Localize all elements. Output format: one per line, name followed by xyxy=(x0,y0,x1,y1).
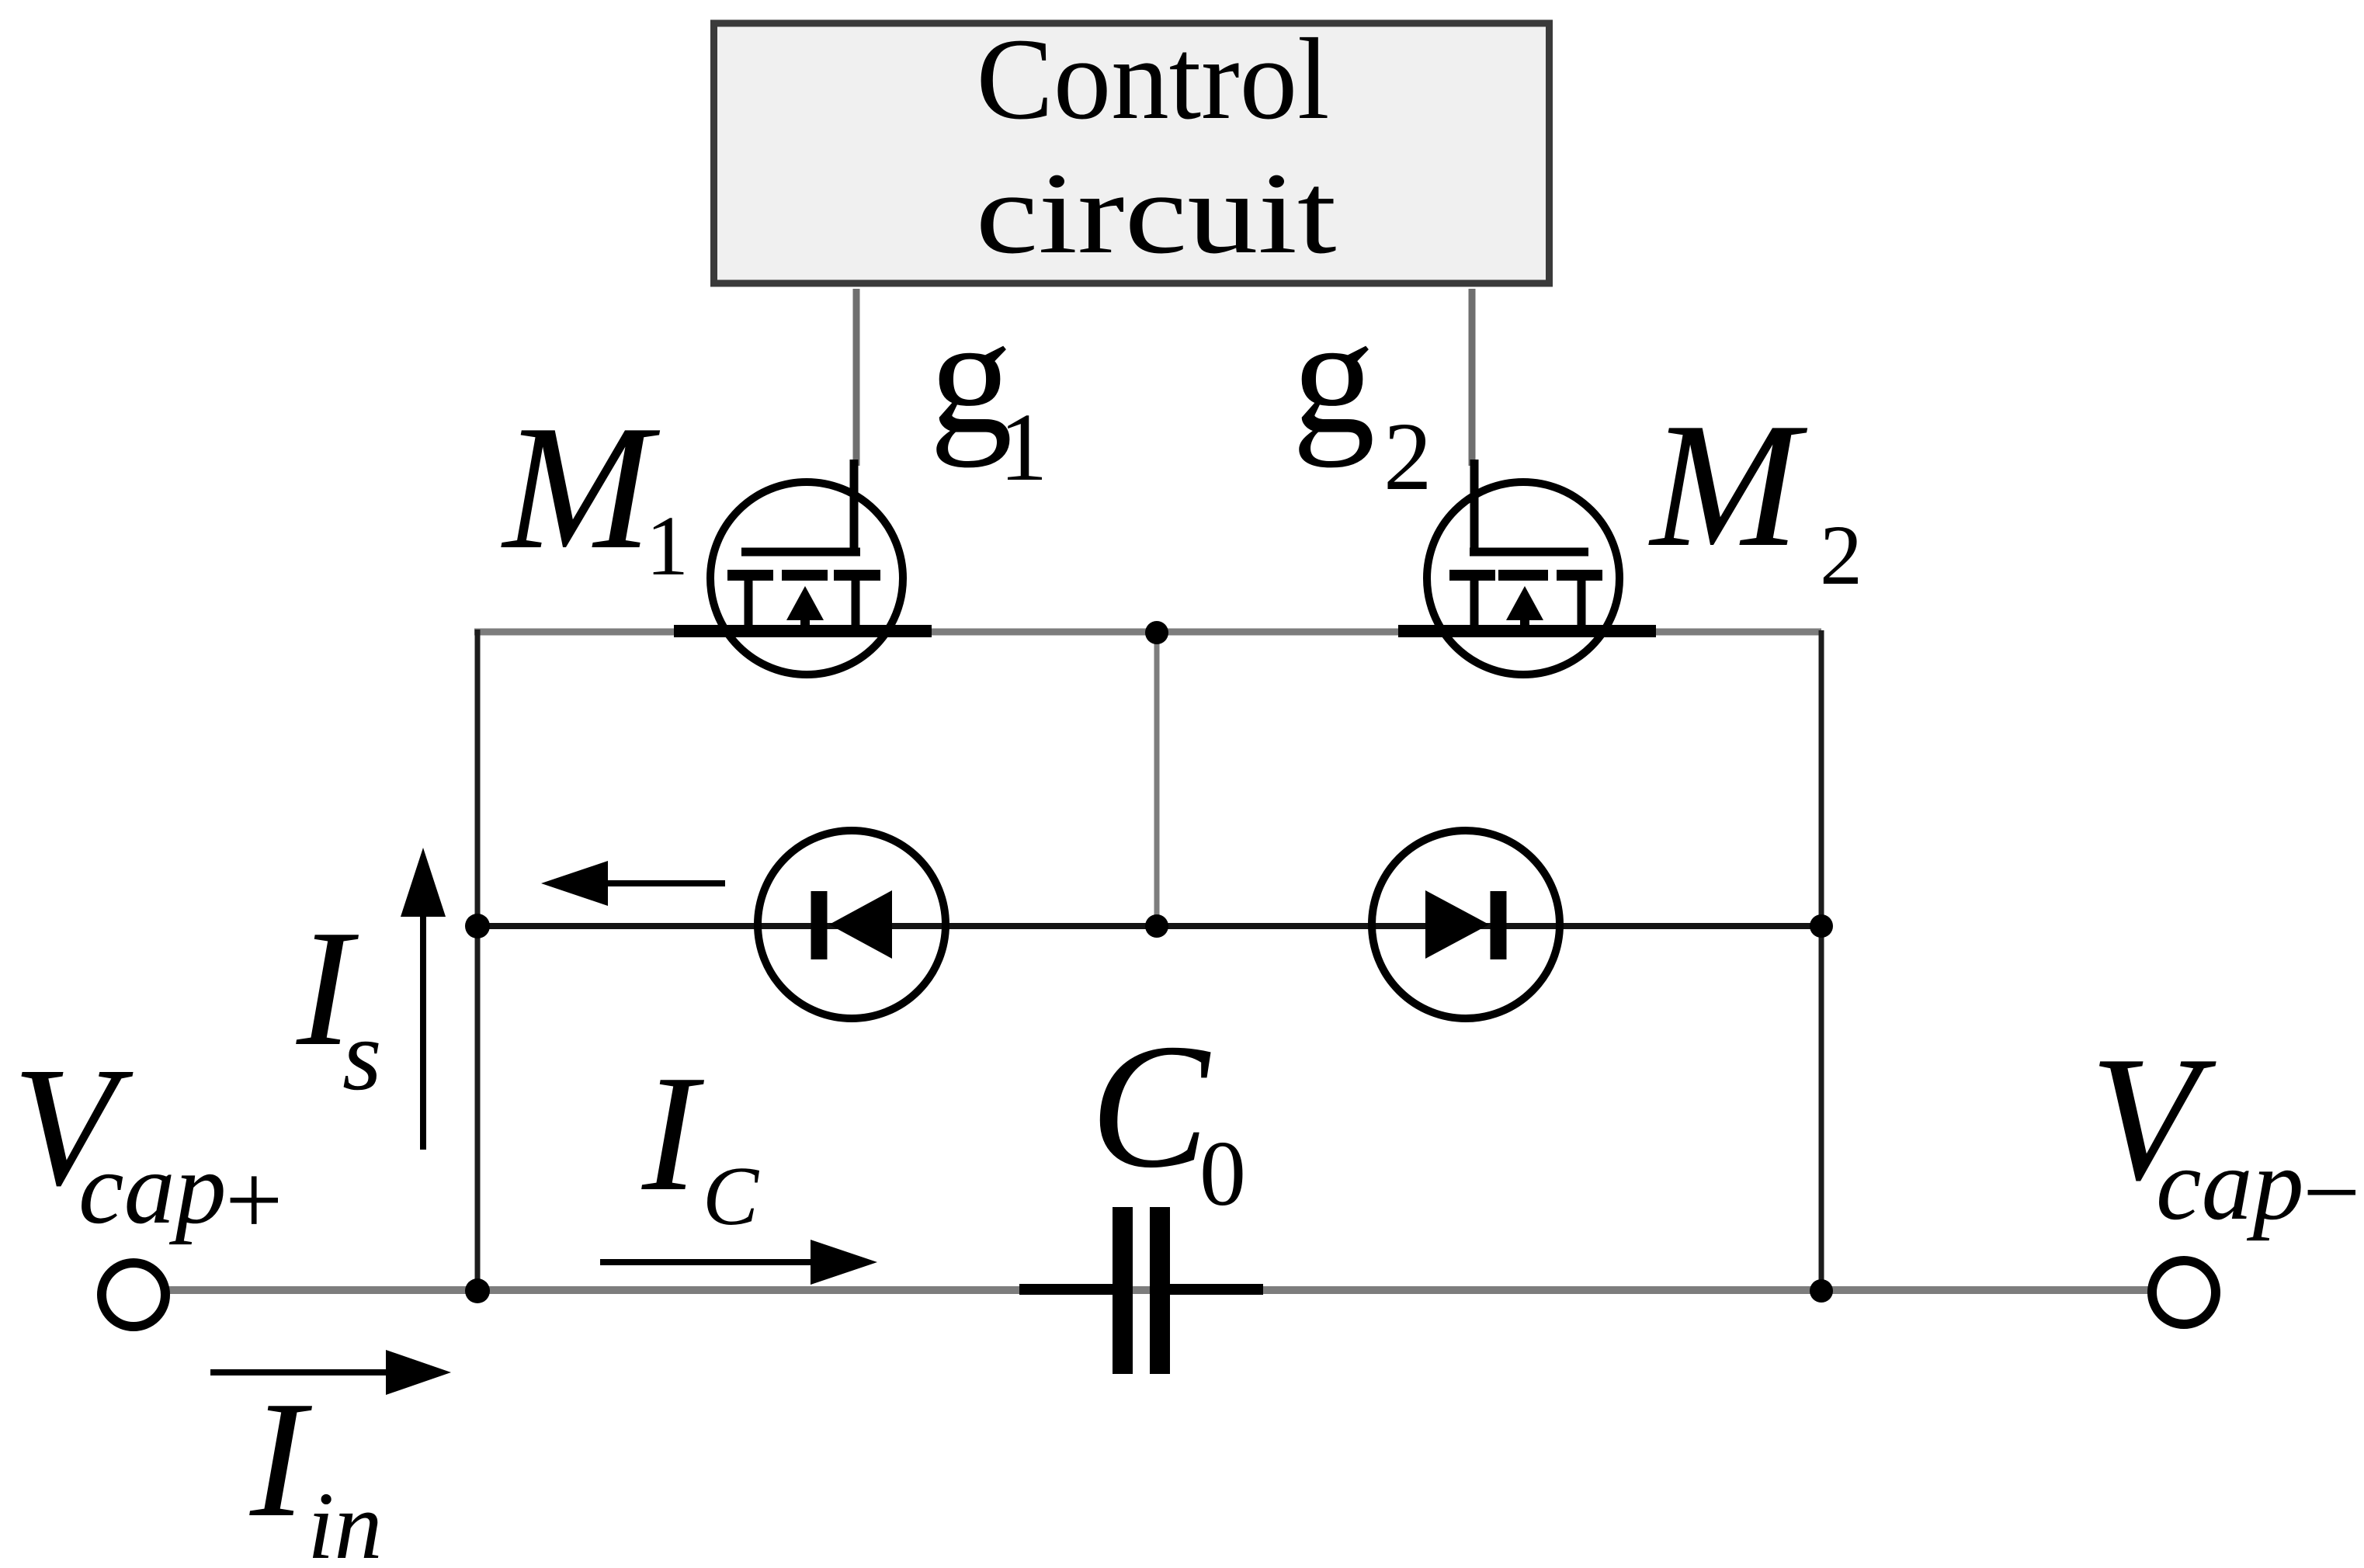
svg-text:2: 2 xyxy=(1820,508,1862,602)
svg-text:g: g xyxy=(1292,283,1376,468)
junction node diode row center xyxy=(1145,914,1168,938)
wire gate g2 from control box xyxy=(1469,289,1476,466)
junction node diode row right xyxy=(1810,914,1833,938)
arrow Iin (right) xyxy=(210,1350,451,1395)
svg-text:in: in xyxy=(307,1473,382,1568)
wire top rail xyxy=(474,629,1821,636)
svg-text:C: C xyxy=(1090,1007,1211,1205)
junction node bottom right xyxy=(1810,1279,1833,1303)
svg-text:C: C xyxy=(703,1150,760,1243)
arrow Ic (right) xyxy=(600,1240,877,1285)
wire left vertical xyxy=(475,630,481,1291)
svg-text:2: 2 xyxy=(1383,404,1432,511)
wire gate g1 from control box xyxy=(853,289,860,466)
wire center vertical (top rail to diode row) xyxy=(1154,633,1160,926)
svg-text:s: s xyxy=(342,1000,382,1112)
svg-text:0: 0 xyxy=(1199,1122,1246,1225)
junction node diode row left xyxy=(465,914,490,938)
svg-text:I: I xyxy=(249,1366,312,1552)
junction node bottom left xyxy=(465,1278,490,1303)
terminal Vcap+ xyxy=(102,1263,165,1327)
svg-text:circuit: circuit xyxy=(976,149,1337,278)
transistor M2 xyxy=(1398,460,1656,675)
svg-text:I: I xyxy=(641,1040,704,1226)
svg-text:cap: cap xyxy=(78,1131,227,1245)
svg-text:M: M xyxy=(1648,386,1808,584)
transistor M1 xyxy=(674,460,932,675)
wire diode row xyxy=(477,923,1821,929)
svg-text:+: + xyxy=(225,1143,283,1257)
wire right vertical xyxy=(1819,630,1824,1291)
svg-text:cap: cap xyxy=(2156,1127,2304,1241)
junction node top center xyxy=(1145,621,1168,644)
svg-text:Control: Control xyxy=(977,15,1330,144)
diode D1 (left, pointing left) xyxy=(758,831,946,1018)
terminal Vcap- xyxy=(2152,1261,2216,1324)
svg-text:−: − xyxy=(2303,1135,2360,1249)
control box xyxy=(714,23,1550,283)
svg-text:M: M xyxy=(501,388,661,586)
arrow left (diode current) xyxy=(541,861,725,906)
svg-text:1: 1 xyxy=(999,394,1048,501)
wire bottom rail xyxy=(165,1286,2152,1294)
arrow Is (up) xyxy=(401,848,446,1150)
svg-text:1: 1 xyxy=(646,498,689,593)
capacitor C0 xyxy=(1019,1207,1263,1374)
diode D2 (right, pointing right) xyxy=(1372,831,1560,1018)
